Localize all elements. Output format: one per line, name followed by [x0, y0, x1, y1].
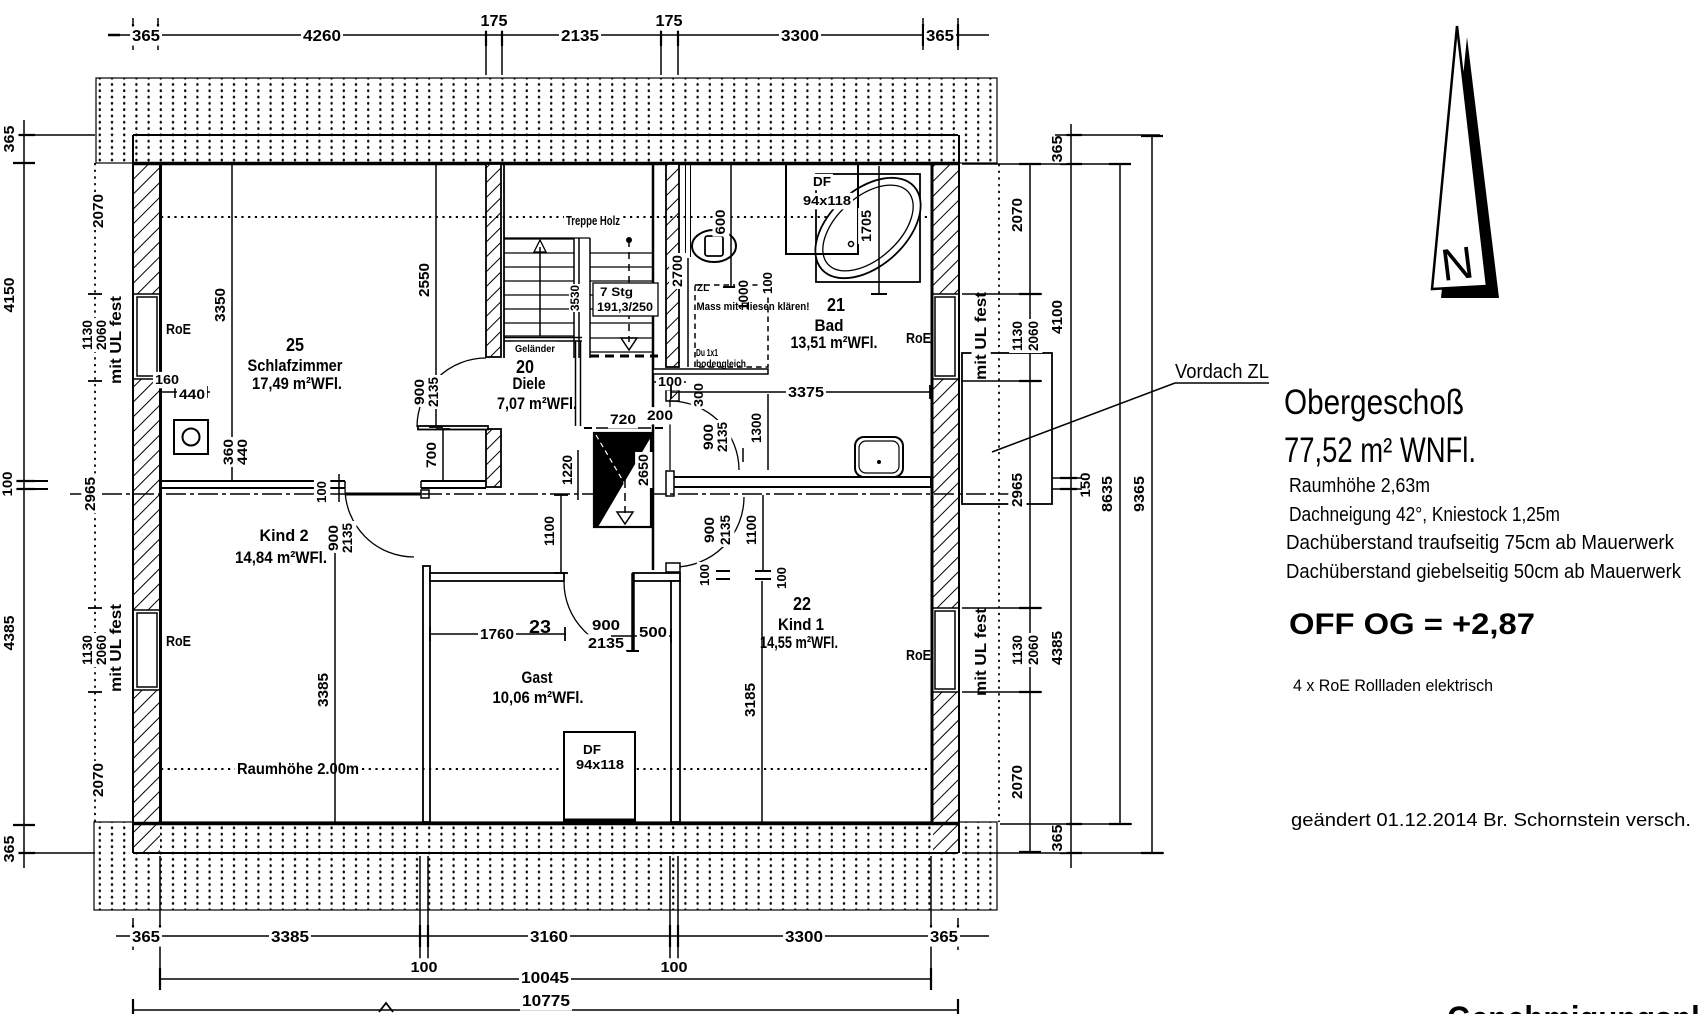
- dim 2650: [635, 452, 652, 488]
- svg-text:Raumhöhe 2.00m: Raumhöhe 2.00m: [237, 761, 359, 778]
- dim 3375 Bad: [671, 391, 930, 393]
- svg-text:mit UL fest: mit UL fest: [973, 291, 990, 380]
- exterior wall inner face right (heavy): [931, 163, 934, 824]
- svg-text:365: 365: [1049, 825, 1066, 852]
- dimension chain right 4: [1151, 136, 1153, 853]
- svg-text:Treppe Holz: Treppe Holz: [566, 213, 620, 228]
- dim 3185 Kind1: [761, 581, 763, 824]
- svg-text:RoE: RoE: [166, 321, 191, 338]
- svg-text:500: 500: [639, 624, 667, 641]
- svg-text:3350: 3350: [212, 288, 229, 322]
- svg-text:365: 365: [930, 929, 958, 946]
- svg-text:175: 175: [656, 13, 683, 30]
- WC partition double line: [685, 163, 687, 257]
- svg-text:25: 25: [286, 335, 304, 355]
- svg-text:2965: 2965: [82, 477, 99, 511]
- door arc Kind1: [674, 497, 744, 567]
- fixture square with circle Schlafzimmer: [174, 420, 208, 454]
- svg-text:geändert 01.12.2014 Br. Schor: geändert 01.12.2014 Br. Schornstein vers…: [1291, 810, 1691, 830]
- dim 700: [442, 429, 444, 481]
- dim 2550: [435, 163, 437, 427]
- svg-text:Kind 1: Kind 1: [778, 615, 824, 634]
- svg-text:14,55 m²WFl.: 14,55 m²WFl.: [760, 633, 838, 652]
- svg-text:700: 700: [423, 442, 439, 468]
- exterior wall outer face left: [132, 135, 134, 853]
- svg-text:Vordach ZL: Vordach ZL: [1175, 361, 1269, 383]
- svg-text:Diele: Diele: [513, 374, 546, 393]
- window RoE Schlafzimmer left upper: [133, 293, 161, 295]
- svg-text:9365: 9365: [1131, 476, 1148, 512]
- north arrow: [1441, 37, 1499, 298]
- shower dashed box: [695, 285, 768, 367]
- stair wall left hatched lower: [486, 429, 501, 487]
- door arc Gast: [564, 582, 633, 651]
- corner bathtub: [816, 174, 920, 282]
- dim 1300: [767, 394, 769, 470]
- svg-text:17,49 m²WFl.: 17,49 m²WFl.: [252, 374, 342, 393]
- svg-text:100: 100: [314, 481, 329, 503]
- svg-text:1100: 1100: [541, 516, 557, 546]
- partition Schlafzimmer/Kind2: [161, 480, 345, 482]
- svg-text:3300: 3300: [781, 28, 819, 45]
- svg-text:Schlafzimmer: Schlafzimmer: [248, 356, 343, 375]
- dim 160 440: [160, 391, 210, 393]
- roof edge dashed line left: [94, 163, 96, 822]
- handrail Gelaender: [504, 337, 582, 339]
- svg-text:7,07 m²WFl.: 7,07 m²WFl.: [497, 394, 577, 413]
- Gast top wall right: [633, 573, 680, 581]
- dim 1760 Gast: [430, 633, 565, 635]
- svg-text:1300: 1300: [748, 413, 764, 443]
- svg-text:Raumhöhe 2,63m: Raumhöhe 2,63m: [1289, 475, 1430, 497]
- svg-text:22: 22: [793, 594, 811, 614]
- svg-text:3375: 3375: [788, 384, 824, 401]
- dim 1220: [577, 450, 579, 500]
- svg-text:100: 100: [774, 567, 789, 589]
- left window dimension labels: [88, 293, 102, 295]
- svg-text:10045: 10045: [521, 970, 569, 987]
- window RoE Kind1 right lower: [931, 607, 959, 609]
- svg-text:ZL: ZL: [697, 283, 709, 294]
- stair treads right run: [590, 252, 653, 254]
- dimension chain top: [116, 34, 989, 36]
- svg-text:Mass mit Fliesen klären!: Mass mit Fliesen klären!: [697, 301, 810, 313]
- svg-text:RoE: RoE: [906, 647, 931, 664]
- Vordach canopy rectangle: [962, 353, 1052, 504]
- svg-text:14,84 m²WFl.: 14,84 m²WFl.: [235, 548, 327, 567]
- svg-text:3385: 3385: [271, 929, 309, 946]
- svg-text:2650: 2650: [635, 454, 651, 486]
- svg-text:200: 200: [647, 407, 673, 423]
- svg-text:720: 720: [610, 411, 636, 427]
- stair wall left hatched upper: [486, 164, 501, 357]
- dim 900 2135 Kind1 door: [742, 448, 744, 462]
- svg-text:175: 175: [481, 13, 508, 30]
- exterior wall outer face top: [133, 134, 958, 136]
- svg-text:4150: 4150: [1, 278, 18, 313]
- exterior wall inner face left (heavy): [159, 163, 162, 824]
- svg-text:100: 100: [760, 272, 775, 294]
- dim 900 2135 Gast door: [590, 616, 622, 634]
- WC bottom wall: [653, 369, 768, 374]
- walk line lower dashed: [624, 454, 626, 513]
- dim 900 2135 Bad door: [700, 422, 717, 452]
- section center line: [70, 493, 1012, 495]
- exterior wall hatch right: [933, 164, 958, 294]
- dim 600 WC: [730, 164, 732, 287]
- stair walk line dashed with dot: [626, 237, 632, 243]
- stair top boundary: [504, 237, 590, 239]
- svg-text:100: 100: [661, 959, 688, 976]
- svg-text:Geländer: Geländer: [515, 343, 555, 355]
- svg-text:2060: 2060: [1025, 321, 1041, 351]
- svg-text:mit UL fest: mit UL fest: [973, 607, 990, 696]
- svg-text:100: 100: [697, 564, 712, 586]
- svg-text:2060: 2060: [1025, 635, 1041, 665]
- door arc Bad: [670, 401, 739, 470]
- window RoE Bad right upper: [931, 293, 959, 295]
- svg-text:94x118: 94x118: [576, 757, 624, 772]
- svg-text:Kind 2: Kind 2: [260, 526, 309, 545]
- door leaf Kind2: [345, 493, 429, 496]
- door arc Kind2: [345, 488, 414, 557]
- svg-text:1130: 1130: [1009, 321, 1025, 351]
- dim 500: [611, 635, 671, 637]
- corridor wall line: [652, 163, 655, 570]
- svg-text:440: 440: [179, 386, 205, 402]
- svg-text:2070: 2070: [90, 194, 107, 228]
- svg-text:10,06 m²WFl.: 10,06 m²WFl.: [493, 688, 584, 707]
- dimension chain bottom 1: [116, 935, 989, 937]
- dim 1705 bathtub: [878, 166, 880, 294]
- svg-text:365: 365: [1, 836, 18, 863]
- svg-text:4 x RoE Rollladen elektrisch: 4 x RoE Rollladen elektrisch: [1293, 676, 1493, 695]
- door arc Schlafzimmer: [417, 358, 486, 427]
- svg-text:DF: DF: [813, 174, 831, 189]
- svg-text:mit UL fest: mit UL fest: [108, 295, 125, 384]
- svg-text:N: N: [1438, 236, 1476, 291]
- svg-text:1130: 1130: [1009, 635, 1025, 665]
- svg-text:365: 365: [1, 126, 18, 153]
- svg-text:2135: 2135: [339, 523, 355, 553]
- svg-text:160: 160: [155, 372, 179, 387]
- svg-text:2135: 2135: [588, 635, 624, 652]
- exterior wall outer face bottom: [133, 852, 958, 854]
- svg-text:Genehmigungspla: Genehmigungspla: [1447, 1000, 1700, 1014]
- svg-text:4385: 4385: [1049, 631, 1066, 665]
- svg-text:bodengleich: bodengleich: [696, 358, 746, 370]
- svg-text:3185: 3185: [742, 683, 759, 717]
- svg-text:440: 440: [234, 439, 250, 465]
- svg-text:2135: 2135: [717, 515, 733, 545]
- svg-text:2700: 2700: [669, 255, 685, 287]
- svg-text:8635: 8635: [1099, 476, 1116, 512]
- svg-text:1705: 1705: [858, 210, 874, 242]
- svg-text:300: 300: [691, 383, 706, 407]
- svg-text:10775: 10775: [522, 993, 570, 1010]
- dim 900 2135 Schlafzimmer door: [411, 377, 428, 407]
- door leaf Bad: [669, 401, 671, 470]
- dim 1100 right: [762, 495, 764, 570]
- dim 3350 Schlafzimmer: [231, 163, 233, 481]
- chimney Schornstein: [594, 433, 651, 527]
- svg-text:2070: 2070: [1009, 765, 1026, 799]
- svg-text:RoE: RoE: [906, 330, 931, 347]
- stair wall right hatched: [666, 164, 679, 367]
- exterior wall inner face top (heavy): [133, 162, 958, 166]
- stair treads left run: [504, 238, 574, 240]
- svg-text:100: 100: [411, 959, 438, 976]
- svg-text:365: 365: [1049, 136, 1066, 163]
- washbasin Bad: [855, 437, 903, 477]
- dimension chain left: [23, 120, 25, 868]
- svg-text:3385: 3385: [315, 673, 332, 707]
- dimension chain right 3: [1119, 164, 1121, 824]
- svg-text:RoE: RoE: [166, 633, 191, 650]
- svg-text:4260: 4260: [303, 28, 341, 45]
- wall fin at Gast door: [631, 573, 635, 651]
- svg-text:2965: 2965: [1009, 473, 1026, 507]
- dim 100 300 at WC wall: [653, 381, 686, 383]
- stair bottom dashed edge: [590, 355, 658, 358]
- dim 1000 100 shower: [735, 278, 752, 312]
- svg-text:13,51 m²WFl.: 13,51 m²WFl.: [791, 333, 878, 352]
- svg-text:21: 21: [827, 295, 845, 315]
- svg-text:Obergeschoß: Obergeschoß: [1284, 383, 1464, 422]
- svg-text:mit UL fest: mit UL fest: [108, 603, 125, 692]
- dimension chain right 2: [1070, 124, 1072, 868]
- wall Kind2/Gast: [423, 566, 430, 822]
- dotted line Raumhoehe upper: [161, 216, 931, 218]
- dimension chain bottom 3: [133, 1009, 958, 1011]
- svg-text:2550: 2550: [416, 263, 433, 297]
- svg-text:365: 365: [926, 28, 954, 45]
- dim 3385 Kind2: [334, 531, 336, 824]
- svg-text:77,52 m² WNFl.: 77,52 m² WNFl.: [1284, 431, 1476, 470]
- svg-text:900: 900: [701, 517, 717, 543]
- svg-text:Dachüberstand traufseitig 75cm: Dachüberstand traufseitig 75cm ab Mauerw…: [1286, 532, 1675, 554]
- wall Gast/Kind1: [671, 581, 680, 822]
- stair left boundary: [503, 163, 505, 358]
- svg-text:3300: 3300: [785, 929, 823, 946]
- svg-text:2135: 2135: [714, 422, 730, 452]
- dim 1100 left: [560, 495, 562, 573]
- exterior wall outer face right: [958, 135, 960, 853]
- partition Bad/Kind1: [667, 477, 931, 487]
- svg-text:365: 365: [132, 929, 160, 946]
- roof overhang band bottom: [94, 822, 997, 910]
- svg-text:94x118: 94x118: [803, 193, 851, 208]
- dim 900 2135 Kind2 door: [325, 523, 342, 553]
- svg-text:DF: DF: [583, 742, 601, 757]
- dim 100 100 ticks near Gast door: [716, 570, 730, 572]
- svg-text:191,3/250: 191,3/250: [597, 302, 653, 314]
- stair walk line up arrow: [539, 247, 541, 336]
- svg-text:OFF OG = +2,87: OFF OG = +2,87: [1289, 608, 1535, 641]
- svg-text:2135: 2135: [561, 28, 599, 45]
- svg-text:4385: 4385: [1, 616, 18, 651]
- dormer window DF Bad: [786, 164, 858, 254]
- svg-text:600: 600: [713, 210, 728, 235]
- small arrow marker: [379, 1003, 393, 1012]
- door jamb Bad: [666, 390, 679, 401]
- svg-text:3160: 3160: [530, 929, 568, 946]
- svg-text:365: 365: [132, 28, 160, 45]
- dotted line Raumhoehe lower: [161, 768, 931, 770]
- dim 720 200: [596, 427, 651, 429]
- exterior wall inner face bottom (heavy): [133, 822, 958, 826]
- roof overhang band top (Dachueberstand): [96, 78, 997, 163]
- svg-text:Gast: Gast: [522, 668, 553, 687]
- svg-text:150: 150: [1077, 472, 1093, 497]
- svg-text:7 Stg: 7 Stg: [600, 285, 633, 299]
- svg-text:Dachneigung 42°, Kniestock 1,2: Dachneigung 42°, Kniestock 1,25m: [1289, 504, 1560, 526]
- stair labels: [564, 213, 622, 229]
- svg-text:2070: 2070: [1009, 198, 1026, 232]
- exterior wall hatch left: [134, 164, 160, 294]
- stair stringer double line: [573, 238, 575, 358]
- svg-text:4100: 4100: [1049, 300, 1066, 334]
- dimension chain right 1: [1029, 164, 1031, 852]
- dim 2700: [687, 258, 689, 367]
- svg-text:3530: 3530: [570, 285, 582, 311]
- svg-text:Dachüberstand giebelseitig 50c: Dachüberstand giebelseitig 50cm ab Mauer…: [1286, 561, 1682, 583]
- Gast top wall left: [430, 573, 564, 581]
- door jamb Kind1: [666, 563, 680, 572]
- roof edge dashed line right: [998, 164, 1000, 822]
- right extension lines: [962, 163, 1128, 165]
- dim 360 440 rotated: [220, 437, 237, 467]
- dormer window DF Gast: [564, 732, 635, 822]
- svg-text:2070: 2070: [90, 763, 107, 797]
- Diele bottom wall / door leaf Schlafzimmer: [418, 426, 488, 430]
- svg-text:1760: 1760: [480, 626, 514, 643]
- WC toilet: [692, 230, 736, 262]
- svg-text:1100: 1100: [743, 515, 759, 545]
- svg-text:100: 100: [658, 374, 682, 389]
- window RoE Kind2 left lower: [133, 609, 161, 611]
- svg-text:1220: 1220: [559, 455, 575, 485]
- svg-text:2135: 2135: [425, 377, 441, 407]
- svg-text:100: 100: [0, 471, 15, 496]
- svg-text:900: 900: [592, 617, 620, 634]
- dimension chain bottom 2: [160, 978, 931, 980]
